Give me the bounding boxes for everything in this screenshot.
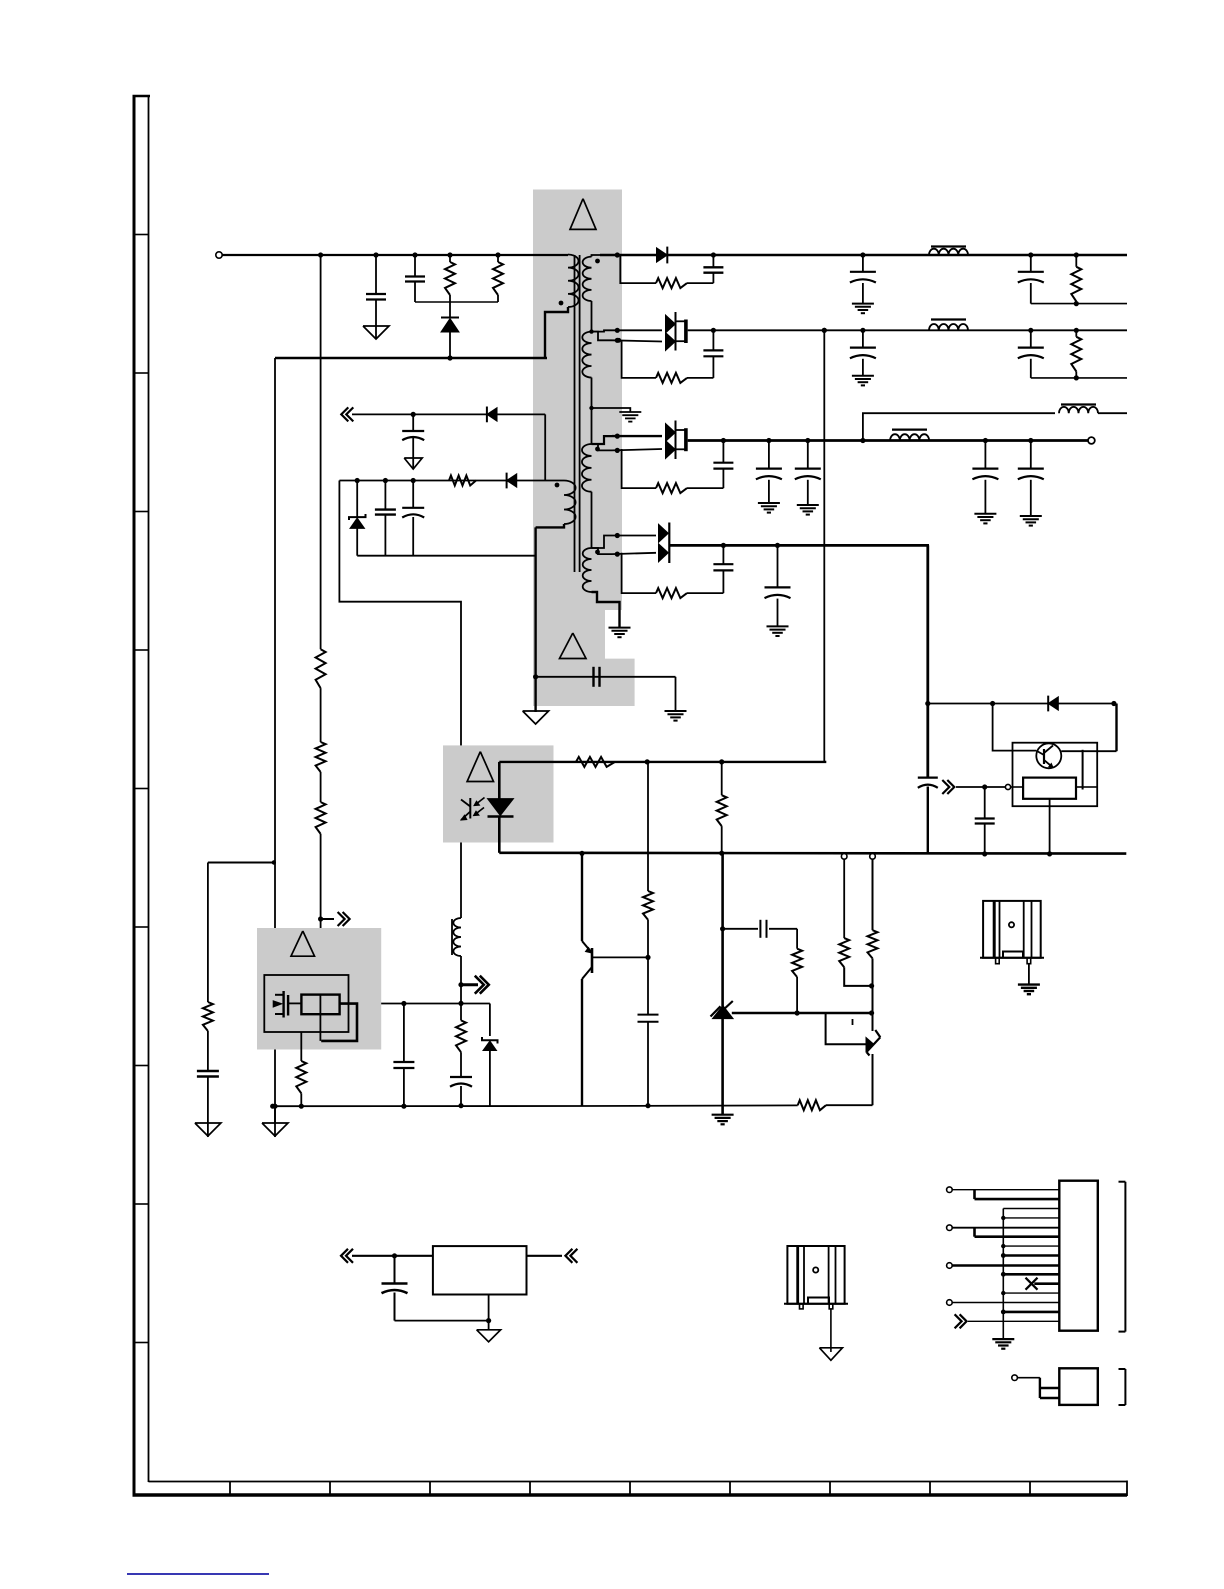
wire C3-ground xyxy=(207,1077,209,1124)
CN1 pin 8 wire xyxy=(1003,1254,1059,1257)
control IC U1 outline xyxy=(264,975,348,1032)
wire U3 gnd pin xyxy=(1049,799,1051,854)
inductor L5 (sense) xyxy=(1061,403,1096,405)
node reg top dots xyxy=(925,701,930,706)
ground (open triangle) HS2 xyxy=(819,1348,842,1361)
capacitor C14 (filter) xyxy=(862,330,864,347)
inductor L3 xyxy=(892,429,927,431)
resistor R20 (load) xyxy=(1075,330,1077,337)
safety triangle marker lower xyxy=(560,633,587,659)
wire bias winding feed xyxy=(339,480,564,482)
wire R13 to ref bus xyxy=(796,977,798,1013)
capacitor C18 xyxy=(807,441,809,469)
snubber R17 xyxy=(617,255,656,283)
transformer T1 highlight region xyxy=(533,190,635,707)
zener ZD2 xyxy=(482,1037,498,1044)
HV return rail xyxy=(275,357,547,359)
MOSFET Q1 (internal) xyxy=(275,994,284,996)
node VCC arrow takeoff xyxy=(458,982,463,987)
CN1 pin 14 wire xyxy=(1003,1311,1059,1314)
output rail 1 xyxy=(600,254,1127,256)
wire HS2 ground xyxy=(830,1309,832,1352)
CN2 terminal xyxy=(1012,1375,1018,1381)
wire R15 bottom xyxy=(872,958,874,1031)
wire opto LED cathode xyxy=(498,817,501,853)
capacitor CY (primary-secondary bridge) xyxy=(536,676,676,678)
node D5-rail junction xyxy=(447,355,452,360)
page border top cap xyxy=(133,95,151,98)
ground (open triangle) C1 xyxy=(363,326,389,339)
node sec-gnd dots xyxy=(579,851,584,856)
wire into U3 xyxy=(1011,786,1024,788)
open terminal rail3 xyxy=(1088,437,1095,444)
output rail 3 (thick) xyxy=(688,439,1088,442)
wire R3-R4 xyxy=(320,688,322,742)
snubber R22 xyxy=(687,592,723,594)
node startup takeoff xyxy=(318,916,323,921)
wire S2 taps to rectifier D2 xyxy=(592,330,613,331)
output rail 4 (thick) xyxy=(669,544,929,547)
resistor R5 (startup dropper) xyxy=(316,802,326,834)
TL431 U2 xyxy=(721,853,724,1008)
resistor R18 (load) xyxy=(1075,255,1077,267)
page border bottom tick marks xyxy=(229,1482,231,1496)
wire 24V feedback drop xyxy=(823,330,825,762)
wire stage4 inputs xyxy=(612,535,656,537)
U3 internal block xyxy=(1023,778,1076,799)
CN1 pin 11 wire (nc) xyxy=(1034,1282,1059,1285)
small mark xyxy=(852,1019,854,1025)
CN1 terminal 1 xyxy=(947,1187,953,1193)
CN1 pin 4 wire xyxy=(1003,1217,1059,1219)
diode D1 xyxy=(657,248,668,262)
T1 S3 polarity dot xyxy=(595,447,600,452)
wire HS1 ground xyxy=(1028,964,1030,985)
dual diode D3 xyxy=(666,424,676,442)
node reg cap tap xyxy=(982,784,987,789)
U3 cap bar xyxy=(1082,750,1084,790)
wire Q3 collector feed xyxy=(993,704,1037,751)
sense terminal B xyxy=(870,854,876,860)
optocoupler light arrows xyxy=(476,798,485,805)
transformer T1 core xyxy=(574,255,576,572)
wire sense out xyxy=(1098,412,1127,414)
wire sense tap xyxy=(863,413,1055,440)
capacitor C7 (VCC) xyxy=(460,1052,462,1076)
diode D8 xyxy=(1048,697,1058,711)
wire sense B column xyxy=(872,860,874,931)
wire sense A column xyxy=(843,860,845,939)
wire aux tap column xyxy=(207,863,209,1003)
diode D7 (bias) xyxy=(507,474,517,488)
wire return 2 xyxy=(1031,377,1127,379)
resistor R12 xyxy=(647,762,649,891)
transformer T1 secondary S2 xyxy=(582,332,591,378)
T1 S2 polarity dot xyxy=(616,338,621,343)
wire opto feed (thick) xyxy=(499,761,826,763)
wire U3 right internal xyxy=(1076,786,1083,788)
U3 input terminal xyxy=(1005,784,1010,789)
T1 S4 polarity dot xyxy=(595,550,600,555)
ground (open triangle) C3 xyxy=(195,1123,221,1136)
wire U4 gnd pin xyxy=(488,1295,490,1330)
node VCC junction xyxy=(458,1001,463,1006)
transistor Q2 xyxy=(581,853,583,941)
capacitor C24 xyxy=(984,787,986,818)
node rail2 dots xyxy=(711,328,716,333)
IC internal block xyxy=(301,995,339,1015)
ground (open triangle) C4 xyxy=(404,458,422,469)
ground (open triangle) U4 xyxy=(477,1330,501,1342)
capacitor C2 xyxy=(414,255,416,276)
earth ground (CY) xyxy=(665,710,687,712)
wire C25 return xyxy=(395,1320,489,1322)
capacitor C8 xyxy=(403,1004,405,1062)
sense terminal A xyxy=(841,854,847,860)
connector CN1 bracket xyxy=(1124,1182,1126,1332)
resistor R7 (bias) xyxy=(449,476,476,486)
HV input terminal xyxy=(216,252,222,258)
earth ground (S4 return) xyxy=(609,627,631,629)
ground (open triangle) below T1 xyxy=(523,711,549,724)
node rail1 dots xyxy=(615,252,620,257)
off-page arrow (reg in) xyxy=(947,780,954,794)
resistor R15 xyxy=(868,930,878,958)
earth ground C14 xyxy=(852,375,874,377)
page border bottom inner xyxy=(149,1481,1128,1483)
resistor R6 xyxy=(203,1002,213,1031)
capacitor C1 (input) xyxy=(375,255,377,293)
transistor Q3 outline xyxy=(1036,743,1061,768)
page border bottom right cap xyxy=(1126,1481,1128,1497)
capacitor C23 (series) xyxy=(918,776,938,778)
transformer T1 secondary S3 xyxy=(582,444,592,492)
earth ground C18 xyxy=(797,504,819,506)
wire CY to earth ground xyxy=(675,677,677,711)
wire primary2 bottom return xyxy=(536,524,564,527)
CN1 terminal 4 xyxy=(947,1300,953,1306)
CN1 terminal 2 xyxy=(947,1225,953,1231)
node rail4 dots xyxy=(721,543,726,548)
wire bias branch down xyxy=(339,481,461,800)
node bias feed dots xyxy=(355,478,360,483)
wire center-tap to earth ground xyxy=(592,408,631,412)
transformer T1 secondary S4 xyxy=(583,548,592,592)
wire opto LED anode xyxy=(498,762,501,799)
transformer T1 primary winding 2 (bias) xyxy=(564,481,576,525)
page border bottom outer xyxy=(133,1493,1128,1496)
off-page arrow CN1 pin15 xyxy=(960,1314,967,1328)
wire S3-S4 link xyxy=(591,492,593,548)
wire S3 taps to rectifier D3 xyxy=(592,436,613,444)
wire stage2 inputs xyxy=(612,329,662,331)
snubber C13 xyxy=(712,330,714,350)
CN2 pin stub xyxy=(1039,1378,1041,1398)
snubber R19 xyxy=(687,377,713,379)
wire HV-return drop column xyxy=(274,358,276,995)
zener ZD1 xyxy=(356,481,358,518)
hyperlink underline xyxy=(127,1573,269,1575)
earth ground C20 xyxy=(1020,515,1042,517)
node reg2 cap tap xyxy=(392,1253,397,1258)
wire IC block bottom pin xyxy=(319,995,321,1041)
heatsink HS1 xyxy=(983,901,1041,958)
node C9 gnd dot xyxy=(645,1103,650,1108)
resistor R13 xyxy=(792,949,802,977)
snubber C21 xyxy=(722,545,724,563)
resistor R8 (VCC) xyxy=(460,1003,462,1020)
capacitor C5 xyxy=(384,481,386,510)
resistor R3 (startup dropper) xyxy=(316,649,326,688)
earth ground C11 xyxy=(852,303,874,305)
wire zener to divider bottom xyxy=(872,1054,874,1105)
capacitor C17 xyxy=(768,441,770,469)
ground (open triangle) primary xyxy=(262,1123,288,1136)
node opto feed dots xyxy=(645,759,650,764)
wire L4 to VCC node xyxy=(460,956,462,1003)
CN1 pin stub 5-6 xyxy=(973,1228,976,1237)
capacitor C19 (out) xyxy=(984,441,986,469)
earth ground C17 xyxy=(758,502,780,504)
wire sense divider feed xyxy=(826,1013,866,1044)
earth ground C22 xyxy=(767,625,789,627)
resistor R4 (startup dropper) xyxy=(316,742,326,772)
wire bleeder bottom bus xyxy=(415,301,498,303)
capacitor C25 xyxy=(394,1256,396,1283)
wire S1 top to +rail xyxy=(592,255,601,257)
optocoupler LED xyxy=(488,799,514,816)
wire TL431 ref bus (thick) xyxy=(732,1012,872,1014)
wire R5 to IC xyxy=(320,834,322,995)
transistor Q3 internals xyxy=(1043,749,1045,764)
capacitor C22 xyxy=(777,545,779,587)
connector CN2 body xyxy=(1059,1368,1098,1405)
T1 S1 polarity dot xyxy=(595,259,600,264)
resistor R9 (IC) xyxy=(300,1032,302,1061)
transformer T1 primary winding 1 xyxy=(568,255,579,308)
regulator U4 box xyxy=(433,1246,527,1294)
off-page arrow (reg2 out) xyxy=(565,1249,572,1263)
snubber R21 xyxy=(687,487,723,489)
diode D6 xyxy=(487,408,497,422)
wire primary ground bus xyxy=(273,1105,581,1107)
wire VCC feed horizontal xyxy=(340,1003,490,1005)
safety triangle marker U1 xyxy=(291,931,315,956)
earth ground (TL431 anode) xyxy=(712,1114,734,1116)
T1 primary 1 polarity dot xyxy=(559,301,564,306)
resistor R14 xyxy=(839,938,849,967)
wire stage3 inputs xyxy=(612,435,662,437)
CN1 pin 3 wire xyxy=(1003,1208,1059,1210)
node 24V tap xyxy=(822,328,827,333)
wire U4 out xyxy=(527,1255,563,1257)
wire reg top row xyxy=(928,703,1114,705)
optocoupler PC1 highlight region xyxy=(443,745,554,842)
earth ground C19 xyxy=(974,513,996,515)
wire bias return bus xyxy=(357,555,535,557)
inductor L2 xyxy=(931,318,966,320)
wire secondary ground bus xyxy=(499,851,1126,854)
diode D5 (clamp) xyxy=(449,302,451,317)
CN1 terminal 3 xyxy=(947,1263,953,1269)
node primary-gnd junction xyxy=(272,1104,277,1109)
wire right thick drop xyxy=(1115,704,1117,752)
capacitor C4 (bias filter) xyxy=(412,414,414,430)
resistor R16 (lower divider) xyxy=(826,1104,873,1106)
CN1 pin 7 wire xyxy=(1003,1245,1059,1247)
regulator box U3 xyxy=(1013,743,1098,807)
node IC ground dots xyxy=(270,1104,275,1109)
wire C23 down xyxy=(927,787,929,854)
wire S1-S2 link xyxy=(591,301,593,332)
node HV junction dots xyxy=(318,252,323,257)
off-page arrow (startup sense) xyxy=(321,918,334,920)
resistor R1 (bleeder) xyxy=(449,255,451,262)
wire IC sense loop (thick) xyxy=(321,1004,357,1041)
capacitor C3 xyxy=(197,1070,219,1072)
capacitor C12 (out) xyxy=(1030,255,1032,271)
page border left tick marks xyxy=(134,234,149,236)
safety triangle marker PC1 xyxy=(467,752,493,782)
dual diode D4 xyxy=(659,524,669,542)
transformer T1 secondary S1 xyxy=(583,257,592,301)
control IC U1 highlight region xyxy=(257,928,381,1050)
wire TL431 ref row xyxy=(723,928,758,930)
wire R4-R5 xyxy=(320,772,322,802)
CN1 ground column xyxy=(1002,1209,1004,1340)
capacitor C11 (filter) xyxy=(862,255,864,271)
resistor R2 (bleeder) xyxy=(497,255,499,262)
capacitor C6 xyxy=(412,481,414,508)
off-page arrow (bias out) xyxy=(341,407,348,421)
earth ground CN1 xyxy=(992,1338,1014,1340)
resistor R11 (opto pull) xyxy=(721,762,723,795)
wire T1 bias return vertical xyxy=(534,527,536,712)
page border left outer xyxy=(133,96,136,1497)
snubber C10 xyxy=(712,273,714,283)
wire startup dropper column xyxy=(320,255,322,649)
optocoupler phototransistor xyxy=(469,798,471,819)
page border left inner xyxy=(148,96,150,1482)
T1 primary 2 polarity dot xyxy=(555,483,560,488)
node TL431 cathode dot xyxy=(720,926,725,931)
wire R6-C3 xyxy=(207,1031,209,1071)
node rail3 dots xyxy=(721,438,726,443)
wire R14 bottom xyxy=(844,967,871,986)
node VCC feed dots xyxy=(401,1001,406,1006)
capacitor C15 (out) xyxy=(1030,330,1032,347)
earth ground (secondary center tap) xyxy=(619,411,641,413)
dual diode D2 xyxy=(666,315,676,333)
wire ref column xyxy=(796,929,798,949)
wire S4 taps to rectifier D4 xyxy=(592,536,613,549)
inductor L1 xyxy=(931,245,966,247)
capacitor C20 (out) xyxy=(1030,441,1032,469)
wire primary1 bottom to HV return rail xyxy=(545,307,568,358)
earth ground HS1 xyxy=(1018,983,1040,985)
zener ZD3 xyxy=(866,1038,874,1052)
snubber C16 xyxy=(722,441,724,463)
wire rail4 down (thick) xyxy=(926,545,929,777)
wire bias corner xyxy=(544,414,546,480)
capacitor C9 xyxy=(647,957,649,1014)
connector CN2 bracket xyxy=(1124,1369,1126,1405)
wire Q2 base xyxy=(592,956,648,958)
heatsink HS2 xyxy=(787,1246,844,1304)
CN1 pin stub 1-2 xyxy=(973,1190,976,1199)
wire aux tap horizontal xyxy=(208,862,275,864)
wire S2 bottom to center-tap ground node xyxy=(591,378,593,445)
resistor R10 (opto series) xyxy=(576,757,615,767)
wire zener branch xyxy=(489,1004,491,1037)
inductor L4 (VCC choke) xyxy=(451,919,453,955)
output rail 2 xyxy=(688,329,1127,331)
connector CN1 body xyxy=(1059,1181,1098,1331)
CN1 pin 10 wire xyxy=(1003,1273,1059,1276)
CN1 pin 12 wire xyxy=(1003,1292,1059,1294)
wire return 1 xyxy=(1031,303,1127,305)
off-page arrow (VCC) xyxy=(461,983,478,986)
wire S4 bottom to earth ground xyxy=(592,592,620,628)
node bias cap tap xyxy=(411,412,416,417)
safety triangle marker on T1 xyxy=(570,199,596,230)
off-page arrow (reg2 in) xyxy=(341,1249,348,1263)
